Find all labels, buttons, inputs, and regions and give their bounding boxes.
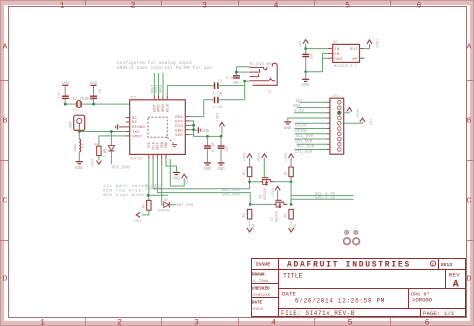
svg-text:RFGND: RFGND xyxy=(132,126,146,130)
wire R1 bottom node xyxy=(249,177,251,189)
frame column labels top xyxy=(60,1,422,10)
junction SEN node xyxy=(147,194,150,197)
wire header GPIO2 xyxy=(295,128,327,130)
ground regulator xyxy=(302,72,310,88)
wire C3 to jack ring node xyxy=(218,85,245,87)
svg-text:4: 4 xyxy=(274,1,279,10)
level shifter resistor R6 xyxy=(285,209,294,219)
svg-text:GND: GND xyxy=(284,127,292,131)
frame row labels left xyxy=(3,44,8,284)
svg-text:4: 4 xyxy=(271,319,276,326)
IC1 pad ground mark xyxy=(172,145,177,147)
svg-text:1: 1 xyxy=(40,319,45,326)
wire SCL_3.3V out xyxy=(291,195,354,197)
svg-text:GND: GND xyxy=(233,81,239,85)
svg-text:SCL: SCL xyxy=(296,100,304,104)
svg-text:BSS138: BSS138 xyxy=(263,188,267,200)
svg-text:>CHECKED: >CHECKED xyxy=(252,293,271,298)
svg-text:T1: T1 xyxy=(259,195,263,199)
svg-text:+5V: +5V xyxy=(300,40,304,47)
svg-text:>L.TOWN: >L.TOWN xyxy=(252,279,268,284)
svg-text:TITLE: TITLE xyxy=(283,273,303,280)
resistor R4 (reset pullup) xyxy=(94,144,107,158)
svg-text:+3V3: +3V3 xyxy=(243,153,247,162)
voltage regulator U2 MIC5225-3.3 xyxy=(328,41,364,69)
svg-text:REV: REV xyxy=(449,271,461,278)
svg-text:ANT: ANT xyxy=(70,120,74,128)
net labels GPO stubs xyxy=(151,84,164,93)
ground under C7 xyxy=(204,163,212,172)
svg-text:IC1: IC1 xyxy=(130,96,136,100)
ground under L1 xyxy=(75,162,83,171)
wire RIN from IC right pin xyxy=(189,100,213,117)
junction crystal-C1 xyxy=(64,103,67,106)
svg-text:B: B xyxy=(3,118,8,126)
junction decoupling 1 xyxy=(206,135,209,138)
svg-text:+5V: +5V xyxy=(368,118,372,125)
IC1 bottom pin labels xyxy=(147,142,168,150)
junction decoupling 2 xyxy=(220,135,223,138)
svg-text:ISSUE: ISSUE xyxy=(256,261,271,267)
svg-text:MJ-3523-SMT: MJ-3523-SMT xyxy=(250,63,272,67)
svg-text:DRAWN: DRAWN xyxy=(252,273,265,277)
title block outline xyxy=(252,259,466,317)
level shifter resistor R3 xyxy=(243,209,252,219)
svg-text:SDA_5V0: SDA_5V0 xyxy=(222,194,240,198)
wire TXO branch down to D1 xyxy=(110,132,112,146)
svg-text:0.1uF: 0.1uF xyxy=(226,76,236,80)
wire pin5 to +5V arrow xyxy=(344,122,363,124)
wire C4 to jack sleeve node xyxy=(218,99,245,101)
frame column ticks top xyxy=(86,0,391,7)
title block left column texts xyxy=(252,261,271,312)
svg-text:2: 2 xyxy=(131,1,136,10)
svg-text:+3V3: +3V3 xyxy=(272,188,276,197)
svg-text:+3V3: +3V3 xyxy=(258,153,262,162)
svg-text:VDD: VDD xyxy=(175,134,183,138)
supply +5V arrow at header xyxy=(360,118,372,126)
wire IC right pins chain xyxy=(189,121,222,136)
jack ring switch xyxy=(250,74,259,77)
antenna pad ANT xyxy=(70,115,85,130)
wire header RST_5V0 xyxy=(297,143,327,145)
junction jack tip xyxy=(235,71,238,74)
svg-text:GND: GND xyxy=(217,168,225,172)
svg-text:+3V3: +3V3 xyxy=(355,108,359,117)
svg-text:C1: C1 xyxy=(219,79,223,83)
resistor R5 SEN pulldown xyxy=(142,200,151,210)
svg-text:R2: R2 xyxy=(285,171,289,175)
ground GND above C2 xyxy=(90,83,98,96)
svg-text:SCL_5V0: SCL_5V0 xyxy=(296,135,314,139)
junction +5V node xyxy=(304,47,307,50)
wire GPO stubs xyxy=(154,73,163,95)
svg-text:DATE: DATE xyxy=(282,291,296,298)
junction crystal-C2 xyxy=(92,103,95,106)
wire header SCL xyxy=(299,101,327,103)
frame row labels right xyxy=(467,44,472,284)
junction regulator gnd node xyxy=(304,70,307,73)
svg-text:3: 3 xyxy=(202,1,207,10)
wire +5V node down to C9 xyxy=(305,49,307,54)
capacitor C8 xyxy=(218,146,229,152)
wire jack vertical ring xyxy=(244,81,246,100)
IC1 top pin stubs xyxy=(154,95,167,100)
svg-text:GPO1: GPO1 xyxy=(157,104,161,112)
wire SEN stub right xyxy=(149,194,168,196)
svg-text:GPO1/2 have internal PU/PD for: GPO1/2 have internal PU/PD for i2c xyxy=(117,66,212,71)
junction jack ring xyxy=(243,80,246,83)
diode D1 on TXO branch xyxy=(104,146,114,153)
wire D1 to net label xyxy=(110,151,112,164)
svg-text:5: 5 xyxy=(348,319,353,326)
wire C9 to gnd node xyxy=(305,57,307,72)
svg-text:C6: C6 xyxy=(99,89,103,93)
svg-text:1: 1 xyxy=(60,1,65,10)
frame column ticks bottom xyxy=(86,317,391,326)
ground near IC bottom xyxy=(166,159,180,181)
jack sleeve bracket xyxy=(253,63,278,85)
svg-text:NC: NC xyxy=(132,121,138,125)
svg-text:SEN high 0x63: SEN high 0x63 xyxy=(103,193,145,198)
wire antenna to TXO row xyxy=(78,131,80,132)
wire to C8 xyxy=(220,136,222,145)
svg-text:SDA: SDA xyxy=(293,105,301,109)
jack ring contact xyxy=(250,78,276,81)
svg-text:+3V3: +3V3 xyxy=(216,113,220,122)
svg-text:GND: GND xyxy=(334,58,342,62)
wire L1 to ground xyxy=(78,152,80,161)
junction R2 node xyxy=(290,180,293,183)
wire OUT to +3V3 xyxy=(364,44,369,49)
svg-text:GPIO2: GPIO2 xyxy=(295,130,308,134)
svg-text:GND: GND xyxy=(75,167,83,171)
junction VDD chain 2 xyxy=(192,128,195,131)
svg-text:3: 3 xyxy=(194,319,199,326)
mounting hole H4 xyxy=(353,238,360,245)
svg-text:0.1uF: 0.1uF xyxy=(211,142,215,152)
wire crystal node left xyxy=(65,103,76,105)
svg-text:GND: GND xyxy=(172,177,180,181)
header JP1 pin circles xyxy=(338,101,342,152)
wire jack ring pin xyxy=(245,80,250,82)
svg-text:2013: 2013 xyxy=(441,262,453,268)
svg-text:6: 6 xyxy=(425,319,430,326)
capacitor C3 LIN coupling xyxy=(213,79,223,96)
jack tip contact xyxy=(250,67,268,70)
svg-text:SI4713: SI4713 xyxy=(130,158,142,162)
svg-text:U2: U2 xyxy=(333,41,337,45)
inductor L1 xyxy=(74,139,86,152)
svg-text:+3V3: +3V3 xyxy=(92,159,96,168)
svg-text:BSS138: BSS138 xyxy=(274,211,278,223)
svg-text:SDA_5V0: SDA_5V0 xyxy=(295,140,313,144)
wire header SDA_5V0 xyxy=(295,138,327,140)
wire header 3.3V xyxy=(294,112,327,114)
svg-text:DATE: DATE xyxy=(252,301,263,305)
svg-text:D: D xyxy=(3,276,8,284)
jack tip switch xyxy=(250,69,260,72)
transistor Q2 BSS138 xyxy=(270,200,288,222)
frame row ticks right xyxy=(466,81,474,241)
supply +3V3 arrow below R4 xyxy=(92,159,102,168)
wire C1 to crystal node xyxy=(64,99,66,104)
ground GND above C1 xyxy=(62,83,70,96)
transistor Q1 BSS138 xyxy=(259,178,274,200)
svg-text:A: A xyxy=(3,44,8,52)
wire SDA_3.3V out xyxy=(291,199,354,204)
svg-text:R5: R5 xyxy=(142,204,146,208)
header JP1 pin stubs xyxy=(327,102,330,149)
svg-text:GND: GND xyxy=(164,142,168,148)
svg-text:CTL_5V0: CTL_5V0 xyxy=(295,151,313,155)
junction antenna node xyxy=(78,130,81,133)
svg-text:+3V3: +3V3 xyxy=(374,39,378,48)
svg-text:FILE: SI471x_REV-B: FILE: SI471x_REV-B xyxy=(281,310,355,317)
svg-text:+3V3: +3V3 xyxy=(133,220,141,224)
IC1 Si4713 box xyxy=(130,96,186,161)
supply +3V3 arrow Q2 gate xyxy=(272,186,280,200)
IC1 bottom pin stubs xyxy=(149,154,166,159)
supply +3V3 arrow regulator out xyxy=(367,39,378,48)
svg-text:6: 6 xyxy=(417,1,422,10)
IC1 thermal pad dashed xyxy=(148,117,174,143)
svg-text:J1: J1 xyxy=(268,91,272,95)
wire C7 to ground xyxy=(206,149,208,163)
svg-text:CHECKED: CHECKED xyxy=(252,287,270,291)
supply +3V3 arrow above R1 xyxy=(243,153,252,167)
supply +3V3 arrow at header xyxy=(347,108,359,117)
wire header CTL_5V0 xyxy=(295,149,327,151)
svg-text:C: C xyxy=(3,198,8,206)
mounting hole H3 xyxy=(344,238,351,245)
svg-text:B: B xyxy=(467,118,472,126)
junction TXO/diode xyxy=(110,130,113,133)
svg-text:GND: GND xyxy=(202,130,210,134)
capacitor C5 on tip node xyxy=(226,76,240,85)
frame row ticks left xyxy=(0,81,9,241)
svg-text:R1: R1 xyxy=(243,171,247,175)
wire VIO pin down to R5 xyxy=(148,159,150,200)
svg-text:RST_5V0: RST_5V0 xyxy=(112,165,130,170)
svg-text:10uH: 10uH xyxy=(74,144,78,152)
svg-text:DIN: DIN xyxy=(175,125,183,129)
svg-text:DFS: DFS xyxy=(175,121,183,125)
junction Q2 source node xyxy=(249,203,252,206)
svg-text:i2c addr select: i2c addr select xyxy=(103,184,151,189)
supply +5V arrow below R6 xyxy=(289,219,299,232)
wire SCL 5V run xyxy=(153,159,250,189)
supply +3V3 arrow near IC bottom xyxy=(170,159,190,186)
svg-text:2: 2 xyxy=(117,319,122,326)
svg-text:GND: GND xyxy=(175,129,183,133)
ground GND right of IC xyxy=(194,127,210,134)
supply +3V3 arrow Q1 gate xyxy=(258,153,267,177)
svg-text:R4: R4 xyxy=(94,144,98,148)
wire LIN audio top xyxy=(167,86,213,96)
IC1 right pin labels xyxy=(175,116,183,138)
wire R2 node down chain xyxy=(290,177,292,205)
svg-text:RCLK: RCLK xyxy=(165,104,169,112)
svg-text:5: 5 xyxy=(345,1,350,10)
svg-text:T2: T2 xyxy=(270,217,274,221)
svg-text:GPO2: GPO2 xyxy=(160,84,164,93)
wire to C7 xyxy=(206,136,208,145)
ground header xyxy=(284,122,292,131)
title block copyright xyxy=(430,261,452,268)
svg-text:L1: L1 xyxy=(82,144,86,148)
svg-text:32.768KHZ: 32.768KHZ xyxy=(72,98,95,102)
junction SDA drain node xyxy=(290,203,293,206)
mounting hole H1 xyxy=(345,231,349,235)
capacitor C7 xyxy=(204,142,215,152)
wire diode to net label xyxy=(169,204,176,206)
svg-text:1uF: 1uF xyxy=(224,146,228,152)
svg-text:A: A xyxy=(467,44,472,52)
wire RST pin to diode xyxy=(162,159,164,205)
svg-text:>DATE: >DATE xyxy=(252,307,264,312)
svg-text:GND: GND xyxy=(302,84,310,88)
svg-text:JP1: JP1 xyxy=(332,95,338,99)
frame column labels bottom xyxy=(40,319,430,326)
svg-text:RST_5V0: RST_5V0 xyxy=(177,204,194,208)
svg-text:+3V3: +3V3 xyxy=(285,153,289,162)
svg-text:EN: EN xyxy=(334,53,340,57)
IC1 left pin labels xyxy=(132,117,146,140)
IC1 top pin labels xyxy=(152,104,169,112)
svg-text:D1: D1 xyxy=(104,149,108,153)
wire R1 node to Q1 source xyxy=(250,181,263,183)
wire EN and GND to ground node xyxy=(323,53,328,58)
supply +5V arrow below R3 xyxy=(247,219,257,232)
wire R4 top to RST pin xyxy=(99,136,126,146)
mounting hole H2 xyxy=(354,231,358,235)
capacitor C1 (crystal load) xyxy=(58,91,69,99)
wire jack tip rows xyxy=(236,66,249,68)
svg-text:#RST: #RST xyxy=(132,135,143,139)
junction VDD chain 1 xyxy=(192,124,195,127)
svg-text:+5V: +5V xyxy=(253,223,257,230)
svg-text:C: C xyxy=(467,198,472,206)
svg-text:D: D xyxy=(467,276,472,284)
note text analog input config xyxy=(117,61,212,71)
level shifter resistor R2 xyxy=(285,167,294,177)
svg-text:1uF: 1uF xyxy=(309,54,313,60)
svg-text:D2: D2 xyxy=(164,198,168,202)
level shifter resistor R1 xyxy=(243,167,252,177)
svg-text:>DRGNO: >DRGNO xyxy=(412,297,433,304)
svg-text:6/26/2014 12:25:58 PM: 6/26/2014 12:25:58 PM xyxy=(295,298,385,305)
wire C8 to ground xyxy=(220,149,222,163)
wire gnd node to GND pin xyxy=(306,58,328,72)
net labels IC bottom wires xyxy=(145,184,162,190)
svg-text:R3: R3 xyxy=(243,213,247,217)
svg-text:OUT: OUT xyxy=(350,48,358,52)
svg-text:c: c xyxy=(432,263,435,268)
IC1 left pin stubs xyxy=(119,118,130,136)
supply arrow left R5 xyxy=(133,212,141,223)
capacitor C4 RIN coupling xyxy=(213,93,223,110)
svg-text:MIC5225-3.3: MIC5225-3.3 xyxy=(334,65,356,69)
supply +5V arrow regulator input xyxy=(300,40,309,49)
junction R1 node xyxy=(248,180,251,183)
svg-text:+5V: +5V xyxy=(294,223,298,230)
svg-text:A: A xyxy=(453,280,459,291)
wire R5 bottom to supply arrow xyxy=(142,210,149,215)
svg-text:GND: GND xyxy=(204,168,212,172)
audio jack J1 xyxy=(250,63,278,95)
svg-text:4.7uF: 4.7uF xyxy=(213,106,223,110)
wire Q1 drain to R2 node xyxy=(274,181,291,183)
capacitor C2 (crystal load) xyxy=(90,89,103,98)
svg-text:+3V3: +3V3 xyxy=(186,176,190,185)
svg-text:SDA_3.3V: SDA_3.3V xyxy=(315,197,336,201)
svg-text:Y1: Y1 xyxy=(73,109,77,113)
svg-text:R6: R6 xyxy=(285,213,289,217)
wire SDA 5V run xyxy=(157,159,250,204)
svg-text:IN: IN xyxy=(334,48,340,52)
wire header SCL_5V0 xyxy=(295,133,327,135)
svg-text:NC: NC xyxy=(132,117,138,121)
junction header pin3 xyxy=(338,111,341,114)
svg-text:ADAFRUIT INDUSTRIES: ADAFRUIT INDUSTRIES xyxy=(287,261,411,270)
ground under C8 xyxy=(217,163,225,172)
svg-text:PAGE: 1/1: PAGE: 1/1 xyxy=(423,310,455,317)
wire header GPIO1 xyxy=(295,122,327,124)
crystal Y1 xyxy=(73,101,82,113)
svg-text:3.3V: 3.3V xyxy=(294,110,305,114)
capacitor C9 xyxy=(302,54,313,60)
svg-text:TXO: TXO xyxy=(132,131,140,135)
wire Q2 source node xyxy=(250,203,274,205)
svg-text:C2: C2 xyxy=(219,93,223,97)
svg-text:BP: BP xyxy=(353,58,359,62)
ground RFGND bars xyxy=(116,124,118,129)
svg-text:22pF: 22pF xyxy=(58,91,62,99)
svg-text:1N4148: 1N4148 xyxy=(158,209,170,213)
svg-text:SEN low 0x11: SEN low 0x11 xyxy=(103,189,141,194)
svg-text:SCL_5V0: SCL_5V0 xyxy=(222,189,240,193)
wire antenna to L1 xyxy=(78,132,80,140)
wire crystal node right to IC xyxy=(81,103,129,105)
diode D2 1N4148 xyxy=(158,198,170,214)
supply +3V3 arrow at VDD xyxy=(216,113,224,137)
wire header SDA xyxy=(297,107,327,109)
wire +5V to IN xyxy=(306,48,328,50)
supply +3V3 arrow above R2 xyxy=(285,153,294,167)
wire R4 bottom to supply xyxy=(98,156,100,161)
header JP1 xyxy=(330,95,344,154)
IC1 right pin stubs xyxy=(185,117,189,135)
wire header GND xyxy=(288,118,327,121)
note text i2c address select xyxy=(103,184,151,198)
wire C2 to crystal node xyxy=(93,99,95,104)
wire pin3 to +3V3 arrow xyxy=(344,112,350,114)
